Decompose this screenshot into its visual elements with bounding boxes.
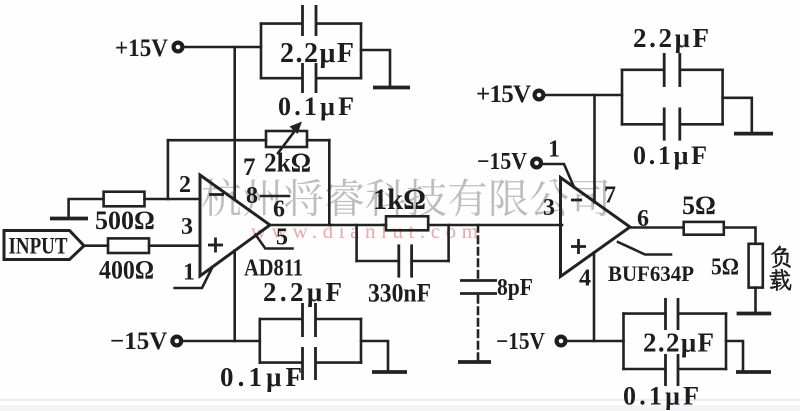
svg-text:2.2μF: 2.2μF — [263, 277, 342, 307]
wire BUF pin7 supply — [593, 95, 596, 203]
bottom scan shading — [0, 399, 800, 401]
terminal -15V (BUF pin 1) — [477, 137, 560, 176]
ground top-right — [734, 132, 773, 136]
wire output corner — [724, 228, 756, 244]
svg-text:6: 6 — [273, 197, 285, 223]
svg-text:5Ω: 5Ω — [711, 255, 739, 281]
wire AD811 output node — [270, 224, 386, 227]
wire to top-left ground — [361, 50, 390, 87]
resistor R5 5 ohm series — [682, 191, 724, 235]
resistor R1 500 — [69, 192, 200, 235]
wire to bottom-left ground — [361, 341, 388, 371]
capacitor 2.2uF (bottom-left pair box) — [260, 277, 361, 363]
capacitor C5 330nF — [357, 225, 449, 308]
pin 1 stub AD811 — [175, 267, 213, 288]
wire feedback loop AD811 — [168, 140, 329, 225]
svg-text:2.2μF: 2.2μF — [633, 23, 709, 53]
svg-text:1kΩ: 1kΩ — [373, 183, 426, 216]
wire load to ground — [754, 288, 757, 312]
label load (fu zai) — [770, 246, 791, 291]
svg-text:+15V: +15V — [476, 81, 531, 108]
svg-text:−15V: −15V — [477, 149, 528, 175]
wire BUF output — [630, 226, 684, 229]
svg-text:2.2μF: 2.2μF — [643, 328, 714, 358]
svg-text:−15V: −15V — [110, 328, 167, 355]
ground bottom-left — [372, 370, 407, 374]
svg-text:2: 2 — [179, 172, 191, 198]
svg-text:5Ω: 5Ω — [682, 191, 716, 220]
wire +15V left rail — [184, 46, 262, 49]
svg-text:+15V: +15V — [115, 35, 168, 62]
svg-text:1: 1 — [183, 260, 195, 286]
svg-text:7: 7 — [243, 154, 256, 181]
svg-text:5: 5 — [276, 225, 288, 251]
wire input — [84, 244, 108, 247]
svg-text:2kΩ: 2kΩ — [264, 148, 311, 178]
wire to bottom-right ground — [726, 341, 743, 371]
svg-text:0.1μF: 0.1μF — [623, 382, 699, 411]
terminal +15V left — [115, 35, 182, 62]
capacitor 0.1uF (bottom-left) — [220, 347, 361, 392]
svg-text:0.1μF: 0.1μF — [220, 362, 302, 392]
ground load — [737, 312, 772, 316]
pin 8 stub AD811 — [261, 195, 289, 198]
svg-text:−15V: −15V — [496, 329, 546, 355]
op-amp U1 AD811 — [179, 172, 303, 286]
op-amp U2 BUF634P — [543, 178, 694, 292]
ground bottom-right — [736, 370, 771, 374]
wire AD811 pin4 supply — [233, 251, 236, 342]
capacitor 2.2uF (bottom-right pair box) — [624, 298, 727, 369]
capacitor 2.2uF (top-right pair box) — [622, 23, 723, 124]
svg-text:BUF634P: BUF634P — [608, 261, 694, 286]
svg-text:7: 7 — [604, 183, 616, 209]
svg-text:3: 3 — [181, 214, 193, 240]
terminal +15V right — [476, 81, 543, 108]
wire -15V left rail — [183, 340, 260, 343]
wire AD811 pin7 supply — [233, 47, 236, 199]
svg-text:330nF: 330nF — [368, 279, 431, 308]
svg-text:0.1μF: 0.1μF — [633, 141, 707, 170]
pin stub BUF634P — [618, 242, 671, 255]
wire interstage — [428, 224, 562, 227]
capacitor 0.1uF (bottom-right) — [623, 354, 726, 411]
svg-text:3: 3 — [543, 195, 555, 221]
ground top-left — [373, 86, 410, 90]
watermark company text — [202, 178, 607, 216]
resistor R4 1k — [373, 183, 428, 230]
capacitor 0.1uF (top-right) — [622, 108, 723, 171]
resistor R6 5 ohm load — [711, 244, 763, 288]
svg-text:500Ω: 500Ω — [95, 206, 155, 235]
svg-text:8pF: 8pF — [497, 275, 533, 301]
input tag INPUT — [4, 231, 84, 260]
svg-text:4: 4 — [579, 266, 591, 292]
svg-text:400Ω: 400Ω — [99, 256, 154, 285]
wire -15V bottom right rail — [567, 340, 624, 343]
potentiometer R3 2k — [264, 122, 311, 178]
svg-text:1: 1 — [548, 137, 560, 163]
capacitor C6 8pF (stray, dashed) — [458, 225, 533, 362]
wire pin 1 BUF — [543, 164, 574, 186]
wire to top-right ground — [723, 98, 752, 133]
terminal -15V left — [110, 328, 181, 355]
capacitor C2 0.1uF (top-left) — [261, 63, 361, 121]
wire BUF pin4 supply — [593, 253, 596, 341]
resistor R2 400 — [99, 238, 200, 284]
ground input bias — [50, 217, 88, 221]
svg-text:0.1μF: 0.1μF — [278, 92, 354, 121]
svg-text:INPUT: INPUT — [9, 233, 68, 258]
terminal -15V bottom right — [496, 329, 565, 355]
pin 5 stub AD811 — [256, 235, 293, 249]
svg-text:8: 8 — [246, 183, 258, 209]
capacitor C1 2.2uF (top-left pair box) — [261, 5, 361, 78]
wire +15V right rail — [545, 94, 623, 97]
